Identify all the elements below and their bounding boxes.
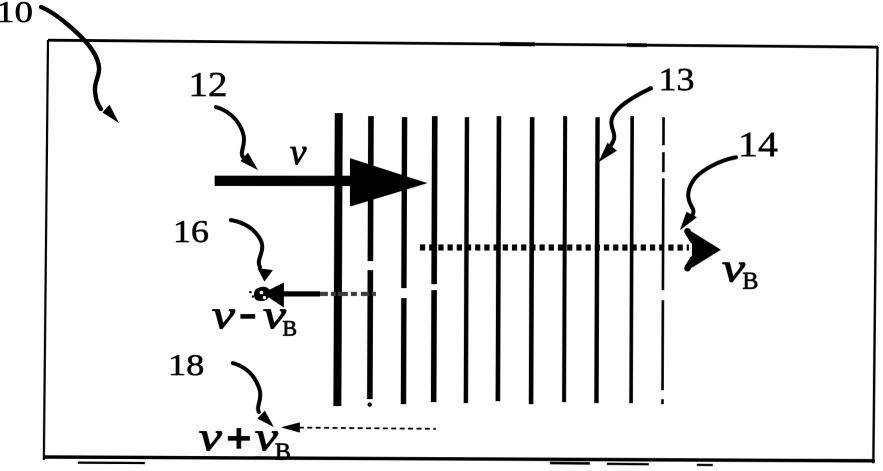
scribble white holes [260,291,264,295]
leader from 16 [231,220,262,267]
arrowhead of leader 13 [598,143,617,163]
stray dot under line 2 [367,402,371,406]
grating line 11 (broken/dashed) [662,117,663,404]
arrowhead of leader 14 [680,212,697,231]
incident beam arrow v : shaft [215,176,352,186]
grating line 10 [631,116,632,403]
reflected arrow v - v_B : head [262,283,284,308]
dotted arrow head [692,232,721,268]
grating line 5 [466,117,467,403]
svg-text:v: v [212,292,235,337]
grating line 8 [564,116,565,402]
svg-text:14: 14 [738,124,778,164]
grating line 2 [370,116,371,399]
leader from 10 [41,7,101,109]
svg-text:B: B [282,316,297,341]
leader from 18 [233,363,260,412]
leader from 12 [216,107,244,157]
svg-text:10: 10 [0,0,33,29]
grating line 9 [596,117,597,403]
grating line 6 [498,116,499,401]
svg-text:13: 13 [658,62,694,98]
svg-text:B: B [275,440,291,466]
grating line 7 [531,117,532,404]
reflected arrow faint dashed extension [320,292,376,296]
doppler arrow v + v_B : head [281,422,300,432]
arrowhead of leader 12 [240,153,258,171]
arrowhead of leader 16 [257,268,273,282]
svg-text:18: 18 [168,347,205,382]
svg-text:v: v [290,132,307,173]
svg-text:12: 12 [188,65,227,104]
incident beam arrow v : head [350,158,428,207]
scribble dots [249,291,252,294]
leader from 13 [611,88,651,145]
arrowhead of leader 10 [102,105,119,124]
leader from 14 [688,157,736,214]
svg-text:B: B [742,269,758,295]
arrowhead of leader 18 [257,411,274,428]
grating line 3 [403,117,404,404]
grating line 4 [434,116,435,402]
doppler arrow v + v_B : dashed shaft [299,428,436,429]
dotted transmitted arrow (14) shaft [420,244,689,250]
grating line 1 [337,113,338,406]
svg-text:v: v [199,414,222,459]
scribble at tip of 16 arrow [254,287,270,301]
svg-text:16: 16 [173,213,209,249]
reflected arrow v - v_B : shaft [283,291,320,296]
